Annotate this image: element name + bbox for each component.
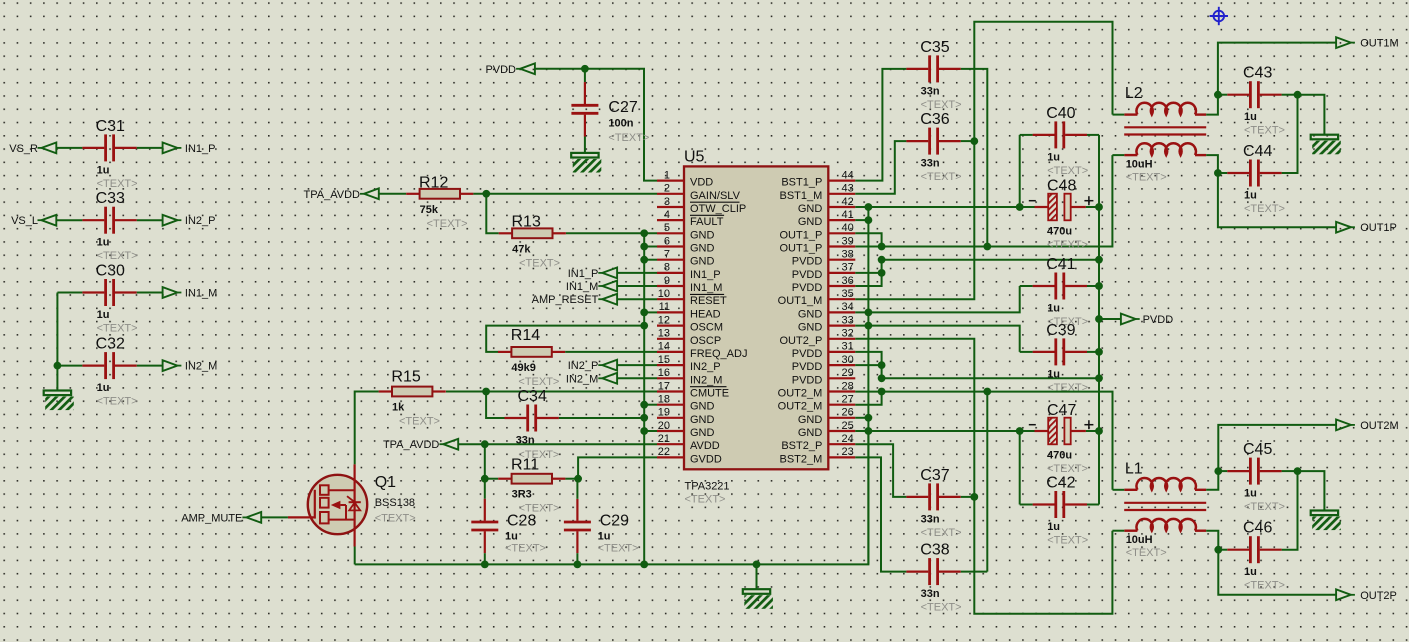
junction C47+/PVDD (1095, 427, 1103, 435)
pin 28 (OUT2_M) stub (828, 390, 855, 392)
svg-text:<TEXT>: <TEXT> (1244, 580, 1285, 592)
pin 10 (RESET) stub (657, 298, 684, 300)
wire GVDD pin22 (578, 457, 657, 478)
wire IN2_M to pin (617, 377, 657, 379)
svg-text:18: 18 (658, 394, 670, 406)
svg-text:1u: 1u (97, 382, 110, 394)
svg-text:42: 42 (842, 196, 854, 208)
wire VS_R to C31 (56, 147, 82, 149)
capacitor C48 (1029, 177, 1094, 250)
svg-text:C42: C42 (1046, 474, 1075, 491)
junction GND bus pin7 (640, 256, 648, 264)
svg-text:GND: GND (690, 427, 715, 439)
junction C37/OUT2_P (970, 493, 978, 501)
junction pin40/39 (878, 243, 886, 251)
svg-text:<TEXT>: <TEXT> (1126, 171, 1167, 183)
junction R11 left (481, 475, 489, 483)
junction trio2 pin29 (878, 374, 886, 382)
wire pin28 OUT2_M (855, 392, 1112, 490)
svg-text:PVDD: PVDD (792, 256, 823, 268)
svg-text:28: 28 (842, 380, 854, 392)
pin 35 (OUT1_M) stub (828, 298, 855, 300)
junction GND bus pin25 (865, 427, 873, 435)
wire C48+ to PVDD (1086, 206, 1099, 208)
svg-text:IN1_P: IN1_P (568, 268, 599, 280)
terminal PVDD top (485, 63, 534, 75)
svg-text:<TEXT>: <TEXT> (1126, 547, 1167, 559)
wire R13 to pin5 GND (566, 232, 657, 234)
svg-text:OUT1_P: OUT1_P (780, 229, 823, 241)
junction C48- column (1016, 203, 1024, 211)
ground top right (1311, 135, 1341, 155)
svg-text:BSS138: BSS138 (375, 497, 415, 509)
wire AMP_RESET to pin (617, 298, 657, 300)
svg-text:6: 6 (664, 235, 670, 247)
junction C47- column (1016, 427, 1024, 435)
svg-text:OUT1P: OUT1P (1360, 222, 1397, 234)
svg-text:GND: GND (690, 243, 715, 255)
wire ground stub (756, 564, 758, 589)
svg-text:31: 31 (842, 341, 854, 353)
wire C30 to IN1_M (137, 292, 163, 294)
junction GND bus pin12 (640, 322, 648, 330)
svg-text:20: 20 (658, 420, 670, 432)
svg-text:33n: 33n (921, 588, 940, 600)
wire pin30 stub (855, 364, 881, 366)
svg-text:L2: L2 (1125, 85, 1143, 102)
pin 16 (IN2_M) stub (657, 377, 684, 379)
pin 2 (GAIN/SLV) stub (657, 193, 684, 195)
svg-text:33n: 33n (921, 85, 940, 97)
svg-text:VS_R: VS_R (9, 143, 38, 155)
capacitor C37 (906, 467, 961, 539)
pin 38 (PVDD) stub (828, 259, 855, 261)
svg-text:C46: C46 (1243, 520, 1272, 537)
wire C35 to OUT1_P column (961, 69, 988, 247)
svg-text:GND: GND (690, 229, 715, 241)
terminal TPA_AVDD upper (304, 188, 379, 200)
wire pin18 stub (644, 404, 657, 406)
svg-text:R14: R14 (511, 327, 540, 344)
svg-text:AVDD: AVDD (690, 440, 720, 452)
wire PVDD column (1098, 135, 1100, 505)
pin 22 (GVDD) stub (657, 456, 684, 458)
wire C43 leads (1218, 94, 1227, 96)
svg-text:C34: C34 (518, 388, 547, 405)
svg-text:PVDD: PVDD (792, 348, 823, 360)
svg-text:Q1: Q1 (375, 474, 396, 491)
terminal TPA_AVDD lower (383, 439, 458, 451)
svg-text:23: 23 (842, 446, 854, 458)
svg-text:FAULT: FAULT (690, 216, 724, 228)
capacitor C46 (1227, 520, 1285, 592)
terminal IN1_M out (163, 287, 218, 299)
svg-text:IN2_P: IN2_P (690, 361, 721, 373)
svg-text:GND: GND (690, 401, 715, 413)
wire pin24 to C37 (855, 444, 906, 497)
svg-text:100n: 100n (608, 117, 633, 129)
svg-text:1u: 1u (1047, 303, 1060, 315)
wire C29 to rail (576, 553, 578, 564)
wire junction down to R13 (486, 194, 498, 234)
svg-text:GND: GND (798, 427, 823, 439)
origin marker (1210, 7, 1228, 25)
pin 19 (GND) stub (657, 417, 684, 419)
svg-text:C31: C31 (96, 118, 125, 135)
junction C44 left (1214, 169, 1222, 177)
svg-text:8: 8 (664, 262, 670, 274)
wire bottom GND rail (355, 431, 869, 564)
svg-text:BST1_M: BST1_M (780, 190, 823, 202)
wire L1 upper out to OUT2M (1206, 425, 1337, 490)
svg-text:1u: 1u (1047, 368, 1060, 380)
label TPA3221 (685, 481, 730, 506)
terminal AMP_RESET (532, 294, 617, 306)
pin 11 (HEAD) stub (657, 311, 684, 313)
pin 20 (GND) stub (657, 430, 684, 432)
wire AVDD down to C28 (484, 444, 486, 499)
pin 13 (OSCP) stub (657, 338, 684, 340)
pin 31 (PVDD) stub (828, 351, 855, 353)
wire down to C34 (486, 392, 504, 419)
svg-text:C30: C30 (96, 262, 125, 279)
svg-text:OUT2P: OUT2P (1360, 590, 1397, 602)
wire R15 left to Q1 drain (355, 392, 379, 465)
svg-text:75k: 75k (420, 204, 439, 216)
svg-text:38: 38 (842, 249, 854, 261)
svg-text:<TEXT>: <TEXT> (598, 543, 639, 555)
svg-text:<TEXT>: <TEXT> (1047, 535, 1088, 547)
junction C36/OUT1_M (970, 137, 978, 145)
svg-text:FREQ_ADJ: FREQ_ADJ (690, 348, 747, 360)
svg-text:39: 39 (842, 235, 854, 247)
wire C28 to rail (484, 553, 486, 564)
pin 18 (GND) stub (657, 404, 684, 406)
wire pin11 stub (644, 311, 657, 313)
svg-text:26: 26 (842, 407, 854, 419)
junction pin29/PVDD column (1095, 374, 1103, 382)
junction R15/C34 (482, 388, 490, 396)
svg-text:AMP_RESET: AMP_RESET (532, 294, 599, 306)
svg-text:OUT1_M: OUT1_M (778, 295, 823, 307)
wire pin27 link (855, 392, 881, 405)
svg-text:<TEXT>: <TEXT> (97, 322, 138, 334)
svg-text:OUT2_M: OUT2_M (778, 401, 823, 413)
wire C45/C46 right link (1282, 471, 1298, 550)
wire L2 upper in (1113, 114, 1125, 116)
junction GND bus pin33 (865, 322, 873, 330)
wire C31 to IN1_P (137, 147, 163, 149)
svg-text:19: 19 (658, 407, 670, 419)
junction GND bus pin6 (640, 243, 648, 251)
junction C29 rail (574, 561, 582, 569)
wire PVDD trio upper (855, 260, 1099, 286)
svg-text:PVDD: PVDD (792, 361, 823, 373)
wire OUT2_M vertical (986, 392, 988, 572)
wire pin20 stub (644, 430, 657, 432)
svg-text:25: 25 (842, 420, 854, 432)
wire C43/C44 right link (1282, 95, 1298, 173)
svg-text:GND: GND (798, 203, 823, 215)
svg-text:34: 34 (842, 301, 854, 313)
junction C28 rail (481, 561, 489, 569)
junction trio1 pin37 (878, 269, 886, 277)
svg-text:<TEXT>: <TEXT> (921, 171, 962, 183)
ground under IC (743, 589, 773, 609)
terminal IN1_P out (163, 143, 216, 155)
svg-text:IN1_P: IN1_P (185, 143, 216, 155)
wire C39 right (1087, 351, 1099, 353)
svg-text:GND: GND (798, 322, 823, 334)
svg-text:40: 40 (842, 222, 854, 234)
svg-text:L1: L1 (1125, 460, 1143, 477)
svg-text:OSCM: OSCM (690, 322, 723, 334)
wire VS_L to C33 (56, 219, 82, 221)
svg-text:OUT2_M: OUT2_M (778, 388, 823, 400)
svg-text:21: 21 (658, 433, 670, 445)
junction PVDD arrow (1095, 315, 1103, 323)
wire R11 left lead (485, 478, 498, 480)
junction GND bus pin19 (640, 414, 648, 422)
svg-text:CMUTE: CMUTE (690, 388, 729, 400)
capacitor C40 (1033, 105, 1089, 177)
junction trio1 pin38 (878, 256, 886, 264)
svg-text:RESET: RESET (690, 295, 727, 307)
capacitor C32 (82, 336, 137, 408)
svg-text:10uH: 10uH (1126, 158, 1153, 170)
wire pin32 OUT2_P (855, 339, 1112, 614)
svg-text:9: 9 (664, 275, 670, 287)
wire L2 upper out to OUT1M (1206, 43, 1337, 115)
svg-text:IN1_M: IN1_M (690, 282, 722, 294)
wire C42 left vertical (1019, 431, 1021, 505)
pin 15 (IN2_P) stub (657, 364, 684, 366)
svg-text:PVDD: PVDD (792, 374, 823, 386)
svg-text:GAIN/SLV: GAIN/SLV (690, 190, 741, 202)
svg-text:R15: R15 (391, 369, 420, 386)
wire PVDD arrow (1099, 318, 1121, 320)
wire C38 right (961, 571, 988, 573)
svg-text:<TEXT>: <TEXT> (1047, 165, 1088, 177)
svg-text:GND: GND (798, 308, 823, 320)
junction rail/ground (753, 561, 761, 569)
svg-text:1u: 1u (1047, 151, 1060, 163)
pin 40 (OUT1_P) stub (828, 232, 855, 234)
junction GND bus top (865, 203, 873, 211)
svg-text:OTW_CLIP: OTW_CLIP (690, 203, 746, 215)
junction GND bus pin41 (865, 216, 873, 224)
svg-text:37: 37 (842, 262, 854, 274)
capacitor C39 (1033, 322, 1089, 394)
capacitor C43 (1227, 65, 1285, 137)
junction C43 right (1294, 91, 1302, 99)
junction OUT1_P column (983, 243, 991, 251)
svg-text:HEAD: HEAD (690, 308, 721, 320)
svg-text:<TEXT>: <TEXT> (1047, 239, 1088, 251)
svg-text:C36: C36 (920, 111, 949, 128)
junction trio2 pin30 (878, 361, 886, 369)
svg-text:<TEXT>: <TEXT> (518, 376, 559, 388)
svg-text:TPA_AVDD: TPA_AVDD (383, 439, 439, 451)
pin 9 (IN1_M) stub (657, 285, 684, 287)
terminal VS_L (11, 215, 56, 227)
svg-text:C29: C29 (600, 513, 629, 530)
wire C41 right (1087, 285, 1099, 287)
svg-text:47k: 47k (512, 243, 531, 255)
capacitor C42 (1033, 474, 1089, 546)
wire C27 top (584, 69, 586, 82)
svg-text:C38: C38 (920, 542, 949, 559)
capacitor C31 (82, 118, 137, 190)
wire C39 left (1020, 351, 1033, 353)
wire gnd riser to C30/C32 (57, 292, 82, 294)
svg-text:<TEXT>: <TEXT> (685, 494, 726, 506)
junction R11 right (574, 475, 582, 483)
pin 36 (PVDD) stub (828, 285, 855, 287)
svg-text:4: 4 (664, 209, 670, 221)
svg-text:49k9: 49k9 (511, 362, 535, 374)
junction C45 left (1214, 467, 1222, 475)
terminal IN1_M (566, 281, 617, 293)
svg-text:C39: C39 (1046, 322, 1075, 339)
svg-text:IN2_P: IN2_P (568, 360, 599, 372)
svg-text:27: 27 (842, 394, 854, 406)
svg-text:BST1_P: BST1_P (781, 177, 822, 189)
svg-text:C41: C41 (1046, 256, 1075, 273)
capacitor C44 (1227, 143, 1285, 215)
ground under C27 (571, 153, 601, 173)
wire C36 to OUT1_M column (961, 140, 975, 142)
junction GND bus pin34 (865, 309, 873, 317)
svg-text:IN1_M: IN1_M (185, 288, 217, 300)
wire C33 to IN2_P (137, 219, 163, 221)
svg-text:<TEXT>: <TEXT> (97, 178, 138, 190)
capacitor C33 (82, 190, 137, 262)
capacitor C36 (906, 111, 961, 183)
wire pin34 row (855, 286, 1019, 312)
wire L2 lower out to OUT1P (1206, 155, 1337, 227)
inductor L1 (1124, 460, 1206, 559)
svg-text:TPA_AVDD: TPA_AVDD (304, 189, 360, 201)
wire PVDD to pin1 VDD (535, 69, 657, 181)
capacitor C35 (906, 39, 961, 111)
resistor R11 (498, 457, 565, 515)
wire C40 left vertical (1019, 135, 1021, 207)
junction GND bus pin5 (640, 229, 648, 237)
wire R11 right lead (565, 478, 578, 480)
svg-text:33n: 33n (921, 158, 940, 170)
pin 43 (BST1_M) stub (828, 193, 855, 195)
junction C46 left (1214, 546, 1222, 554)
terminal IN2_M out (163, 360, 218, 372)
junction C45 right (1294, 467, 1302, 475)
wire C27 to ground (584, 137, 586, 153)
svg-text:44: 44 (842, 169, 854, 181)
svg-text:IN2_M: IN2_M (566, 373, 598, 385)
wire C32 to IN2_M (137, 365, 163, 367)
junction GND bus pin18 (640, 401, 648, 409)
svg-text:PVDD: PVDD (485, 64, 516, 76)
wire IN1_M to pin (617, 285, 657, 287)
wire pin40 link (855, 233, 881, 246)
pin 21 (AVDD) stub (657, 443, 684, 445)
svg-text:3: 3 (664, 196, 670, 208)
resistor R14 (498, 327, 565, 388)
label Q1 (375, 474, 416, 525)
svg-text:<TEXT>: <TEXT> (1244, 125, 1285, 137)
junction C32 left (54, 362, 62, 370)
wire C41 left (1020, 285, 1033, 287)
svg-text:1u: 1u (1244, 566, 1257, 578)
svg-text:470u: 470u (1047, 225, 1072, 237)
svg-text:IN1_M: IN1_M (566, 281, 598, 293)
resistor R12 (406, 174, 473, 230)
wire R14 right to pin14 (565, 351, 657, 353)
svg-text:1u: 1u (1244, 190, 1257, 202)
svg-text:<TEXT>: <TEXT> (1047, 463, 1088, 475)
wire C29 top (576, 479, 578, 499)
svg-text:AMP_MUTE: AMP_MUTE (181, 512, 242, 524)
svg-text:<TEXT>: <TEXT> (921, 99, 962, 111)
svg-text:IN2_M: IN2_M (690, 374, 722, 386)
pin 34 (GND) stub (828, 311, 855, 313)
pin 23 (BST2_M) stub (828, 456, 855, 458)
junction C41/PVDD (1095, 282, 1103, 290)
terminal VS_R (9, 143, 56, 155)
wire R12 to pin2 GAIN/SLV (473, 193, 657, 195)
svg-text:<TEXT>: <TEXT> (1244, 501, 1285, 513)
junction R12 right (482, 190, 490, 198)
pin 37 (PVDD) stub (828, 272, 855, 274)
svg-text:<TEXT>: <TEXT> (399, 416, 440, 428)
svg-text:1k: 1k (392, 402, 405, 414)
wire L1 lower out to OUT2P (1206, 531, 1337, 595)
capacitor C28 (471, 499, 546, 555)
junction OUT2_M column (983, 388, 991, 396)
pin 33 (GND) stub (828, 325, 855, 327)
capacitor C47 (1029, 402, 1094, 475)
terminal OUT2M (1336, 420, 1399, 432)
wire C45 to ground (1298, 471, 1325, 510)
svg-text:33: 33 (842, 314, 854, 326)
svg-text:43: 43 (842, 183, 854, 195)
pin 29 (PVDD) stub (828, 377, 855, 379)
svg-text:R12: R12 (419, 174, 448, 191)
wire pin23 to C38 (855, 457, 906, 571)
svg-text:IN2_M: IN2_M (185, 361, 217, 373)
svg-text:C45: C45 (1243, 441, 1272, 458)
terminal IN1_P (568, 268, 617, 280)
svg-text:OUT1M: OUT1M (1360, 38, 1399, 50)
svg-text:OSCP: OSCP (690, 335, 721, 347)
op-amp U5 body (684, 166, 828, 469)
svg-text:10uH: 10uH (1126, 534, 1153, 546)
svg-text:BST2_M: BST2_M (780, 453, 823, 465)
svg-text:1: 1 (664, 169, 670, 181)
wire pin43 to C36 (855, 141, 906, 194)
pin 42 (GND) stub (828, 206, 855, 208)
svg-text:7: 7 (664, 249, 670, 261)
junction GND bus pin26 (865, 414, 873, 422)
svg-text:C40: C40 (1046, 105, 1075, 122)
wire L2 lower in (1112, 154, 1124, 156)
svg-text:10: 10 (658, 288, 670, 300)
junction PVDD/C27 (581, 65, 589, 73)
junction C48+/PVDD (1095, 203, 1103, 211)
svg-text:<TEXT>: <TEXT> (519, 257, 560, 269)
svg-text:PVDD: PVDD (1143, 314, 1174, 326)
junction AVDD branch (481, 440, 489, 448)
